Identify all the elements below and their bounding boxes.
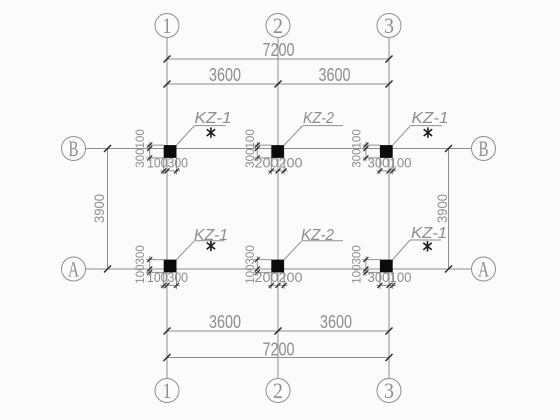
mini dimension 100/300 below column A1 bbox=[147, 269, 188, 289]
svg-text:A: A bbox=[478, 256, 489, 281]
svg-text:1: 1 bbox=[163, 378, 172, 403]
axis bubble 2 top bbox=[266, 13, 290, 38]
mini dimension 300/100 below column B3 bbox=[368, 155, 412, 175]
column KZ-1 at B1 bbox=[164, 145, 177, 158]
spread-footing asterisk mark under label KZ-1 B3 bbox=[424, 127, 432, 137]
mini dimension 300/100 left of column B1 bbox=[135, 129, 164, 168]
axis bubble 3 top bbox=[377, 13, 401, 38]
column KZ-1 at A1 bbox=[164, 260, 177, 273]
svg-text:A: A bbox=[68, 256, 79, 281]
axis bubble 1 top bbox=[155, 13, 179, 38]
column KZ-1 at A3 bbox=[380, 260, 393, 273]
axis bubble 3 bottom bbox=[377, 378, 401, 403]
mini dimension 300/100 left of column B2 bbox=[245, 129, 271, 168]
svg-text:7200: 7200 bbox=[263, 340, 295, 360]
mini dimension 100/300 left of column A1 bbox=[135, 245, 164, 284]
mini dimension 100/300 left of column A2 bbox=[245, 245, 271, 284]
svg-text:100300: 100300 bbox=[147, 269, 188, 285]
svg-text:KZ-2: KZ-2 bbox=[303, 110, 334, 127]
label KZ-1 with leader at column B3 bbox=[393, 110, 449, 145]
grid line 1 (vertical axis) bbox=[166, 38, 168, 379]
svg-text:1: 1 bbox=[163, 13, 172, 38]
mini dimension 200/200 below column A2 bbox=[255, 269, 303, 289]
column KZ-2 at A2 bbox=[271, 260, 284, 273]
mini dimension 300/100 below column A3 bbox=[368, 269, 412, 289]
label KZ-1 with leader at column A1 bbox=[177, 227, 229, 260]
dimension 3600 3600 bottom bbox=[164, 312, 393, 335]
dimension 3900 left bbox=[92, 145, 111, 273]
spread-footing asterisk mark under label KZ-1 A1 bbox=[207, 241, 215, 251]
svg-text:200200: 200200 bbox=[255, 269, 303, 285]
grid line A (horizontal axis) bbox=[86, 268, 472, 270]
svg-text:100300: 100300 bbox=[135, 245, 147, 284]
dimension 7200 top bbox=[164, 40, 393, 63]
svg-text:3600: 3600 bbox=[209, 312, 241, 332]
svg-text:300100: 300100 bbox=[135, 129, 147, 168]
spread-footing asterisk mark under label KZ-1 B1 bbox=[207, 127, 215, 137]
svg-text:7200: 7200 bbox=[263, 40, 295, 60]
svg-text:3600: 3600 bbox=[209, 65, 241, 85]
svg-text:100300: 100300 bbox=[351, 245, 363, 284]
axis bubble 2 bottom bbox=[266, 378, 290, 403]
svg-text:B: B bbox=[479, 136, 489, 161]
column KZ-2 at B2 bbox=[271, 145, 284, 158]
svg-text:300100: 300100 bbox=[351, 129, 363, 168]
svg-text:300100: 300100 bbox=[368, 269, 412, 285]
dimension 7200 bottom bbox=[164, 340, 393, 362]
svg-text:3: 3 bbox=[384, 378, 394, 403]
grid line B (horizontal axis) bbox=[86, 148, 472, 150]
svg-text:3900: 3900 bbox=[435, 194, 450, 223]
svg-text:3600: 3600 bbox=[320, 312, 352, 332]
svg-text:KZ-1: KZ-1 bbox=[411, 225, 447, 242]
svg-text:KZ-1: KZ-1 bbox=[195, 110, 232, 127]
svg-text:100300: 100300 bbox=[147, 155, 188, 171]
mini dimension 100/300 below column B1 bbox=[147, 155, 188, 175]
spread-footing asterisk mark under label KZ-1 A3 bbox=[423, 241, 431, 251]
svg-text:B: B bbox=[69, 136, 79, 161]
label KZ-1 with leader at column B1 bbox=[177, 110, 232, 145]
mini dimension 100/300 left of column A3 bbox=[351, 245, 380, 284]
grid line 2 (vertical axis) bbox=[277, 38, 279, 379]
svg-text:3900: 3900 bbox=[92, 194, 107, 223]
axis bubble B left bbox=[62, 136, 86, 161]
svg-text:KZ-1: KZ-1 bbox=[412, 110, 449, 127]
axis bubble A right bbox=[472, 256, 496, 281]
column KZ-1 at B3 bbox=[380, 145, 393, 158]
label KZ-1 with leader at column A3 bbox=[393, 225, 447, 260]
svg-text:2: 2 bbox=[273, 378, 283, 403]
svg-text:300100: 300100 bbox=[368, 155, 412, 171]
svg-text:200200: 200200 bbox=[255, 155, 303, 171]
dimension 3600 3600 top bbox=[164, 65, 393, 88]
label KZ-2 with leader at column A2 bbox=[284, 227, 343, 260]
axis bubble 1 bottom bbox=[155, 378, 179, 403]
svg-text:3600: 3600 bbox=[319, 65, 351, 85]
mini dimension 200/200 below column B2 bbox=[255, 155, 303, 175]
svg-text:KZ-2: KZ-2 bbox=[301, 227, 334, 244]
mini dimension 300/100 left of column B3 bbox=[351, 129, 380, 168]
axis bubble B right bbox=[472, 136, 496, 161]
grid line 3 (vertical axis) bbox=[388, 38, 390, 379]
label KZ-2 with leader at column B2 bbox=[284, 110, 343, 145]
svg-text:2: 2 bbox=[273, 13, 283, 38]
axis bubble A left bbox=[62, 256, 86, 281]
svg-text:3: 3 bbox=[384, 13, 394, 38]
dimension 3900 right bbox=[435, 145, 452, 273]
